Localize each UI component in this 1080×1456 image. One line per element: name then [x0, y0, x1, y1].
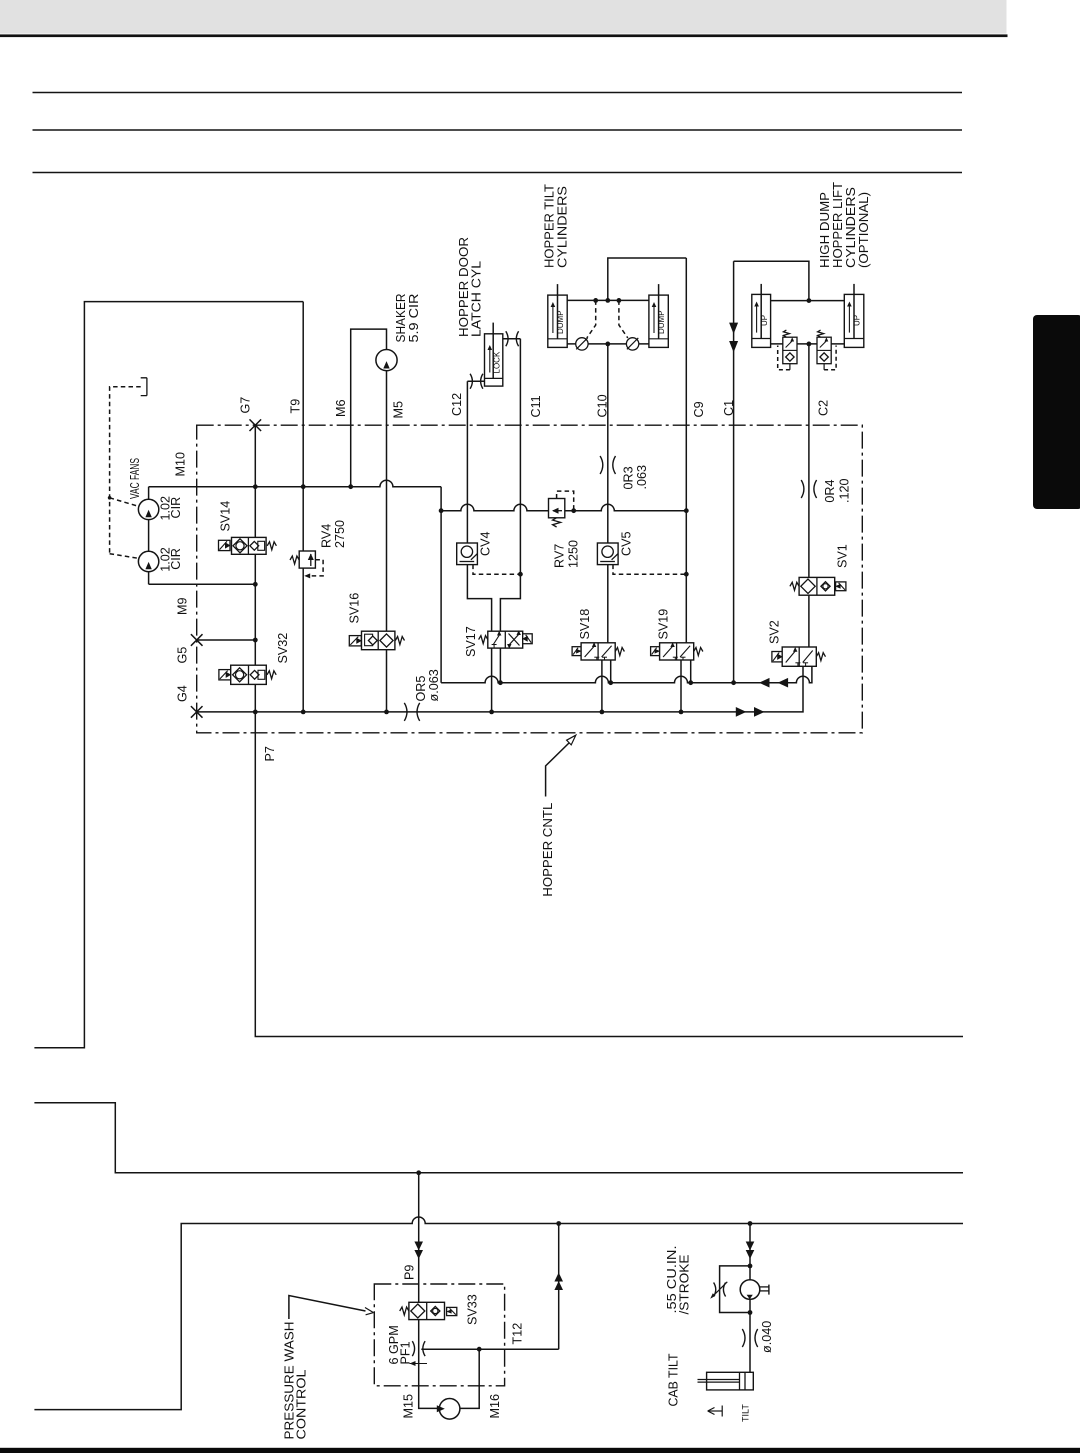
wire tilt cylinders rod-end line	[567, 299, 649, 301]
solenoid valve SV18	[572, 647, 581, 656]
svg-text:CIR: CIR	[169, 548, 183, 570]
wire vac-fan motor column	[148, 487, 150, 585]
svg-text:ø.040: ø.040	[760, 1321, 774, 1353]
wire T9 column	[302, 302, 304, 712]
svg-text:M6: M6	[334, 400, 348, 418]
wire P9 through box to M15	[419, 1284, 440, 1408]
high dump cylinder left	[752, 294, 771, 347]
svg-text:LOCK: LOCK	[493, 351, 502, 373]
hopper tilt cylinder right	[649, 295, 668, 347]
svg-text:M15: M15	[402, 1394, 416, 1419]
bottom black rule	[0, 1448, 1080, 1453]
orifice OR5	[404, 703, 407, 721]
svg-text:ø.063: ø.063	[427, 669, 441, 701]
counterbalance valve left	[783, 337, 797, 364]
page header grey bar	[0, 0, 1007, 34]
svg-text:SV2: SV2	[768, 620, 782, 644]
solenoid valve SV19	[651, 647, 660, 656]
wire SV17 stubs	[491, 648, 493, 712]
solenoid valve SV16	[349, 636, 361, 646]
wire G7/P7 column	[255, 425, 963, 1036]
junction dot M9	[253, 582, 258, 587]
svg-text:C12: C12	[450, 393, 464, 416]
wire C10 up leg to C9	[608, 258, 687, 300]
svg-text:(OPTIONAL): (OPTIONAL)	[856, 192, 871, 268]
flow arrows T rail left	[759, 678, 770, 688]
wire M10 down leg to return rail	[440, 487, 442, 683]
solenoid valve SV17	[479, 636, 488, 644]
wire outer frame left (VAC FANS supply)	[34, 302, 303, 1048]
wire pressure P rail	[197, 666, 803, 712]
wire supply line lower	[34, 1217, 963, 1410]
wire return line upper	[34, 1103, 963, 1173]
pilot dashed lines tilt	[587, 300, 596, 338]
wire cab tilt drop	[749, 1224, 751, 1373]
port X mark G7	[250, 419, 262, 431]
tilt direction arrow	[708, 1410, 723, 1412]
vac fan motor 1	[138, 499, 158, 519]
cab tilt pump	[740, 1280, 760, 1300]
right edge black tab	[1033, 315, 1080, 509]
svg-text:SV14: SV14	[219, 501, 233, 532]
case drain dashed line	[110, 387, 141, 554]
svg-text:UP: UP	[760, 315, 769, 326]
orifice cab tilt	[742, 1329, 745, 1347]
svg-text:LATCH CYL: LATCH CYL	[469, 261, 484, 337]
junction dots tilt	[593, 298, 598, 303]
wire G5 line	[197, 639, 256, 641]
wash pump motor	[439, 1399, 460, 1420]
svg-text:CV5: CV5	[620, 532, 634, 557]
shaker motor	[376, 350, 397, 371]
wire high dump rod-end line	[771, 300, 845, 302]
wire M9 rail	[149, 583, 256, 585]
header line 3	[33, 172, 963, 174]
svg-text:HOPPER CNTL: HOPPER CNTL	[540, 803, 555, 897]
svg-text:0R3: 0R3	[622, 466, 636, 489]
svg-text:UP: UP	[853, 315, 862, 326]
wire C1 column	[733, 261, 735, 682]
flow control PF1	[412, 1341, 414, 1356]
high dump cylinder right	[844, 294, 864, 347]
pressure wash dash-dot box	[374, 1284, 504, 1386]
wire C12 column	[467, 381, 491, 631]
svg-text:CAB TILT: CAB TILT	[666, 1353, 681, 1406]
svg-text:SV19: SV19	[657, 609, 671, 640]
svg-text:P9: P9	[403, 1265, 417, 1280]
junction dots M10 rail	[253, 484, 258, 489]
port X mark G5	[191, 634, 203, 646]
svg-text:/STROKE: /STROKE	[677, 1254, 692, 1314]
wire C1 top link	[734, 261, 809, 300]
svg-text:1250: 1250	[567, 540, 581, 568]
svg-text:M9: M9	[176, 598, 190, 616]
check valve CV4	[457, 543, 478, 565]
check valve CV5	[597, 543, 618, 565]
cab tilt pump shaft	[760, 1286, 769, 1288]
wire P9 drop	[418, 1173, 420, 1284]
wire latch cylinder top port C11	[503, 338, 521, 340]
svg-text:TILT: TILT	[741, 1404, 751, 1422]
orifice OR4	[801, 480, 804, 498]
wire C10 column	[607, 344, 609, 643]
case drain reservoir symbol	[141, 378, 147, 396]
svg-text:SV33: SV33	[466, 1294, 480, 1325]
wire M10 rail	[149, 480, 442, 486]
flow arrows C1 down	[729, 323, 738, 334]
svg-text:G4: G4	[176, 685, 190, 702]
svg-text:SV1: SV1	[836, 544, 850, 568]
svg-text:C9: C9	[692, 401, 706, 417]
relief valve RV7	[549, 499, 565, 518]
svg-text:SV32: SV32	[276, 633, 290, 664]
svg-text:CYLINDERS: CYLINDERS	[555, 186, 570, 268]
solenoid valve SV32	[219, 670, 231, 680]
svg-text:RV4: RV4	[320, 524, 334, 548]
wire T12 line	[421, 1224, 558, 1350]
flow control bypass loop	[720, 1266, 750, 1313]
svg-text:CIR: CIR	[169, 497, 183, 519]
flow arrows P rail right	[736, 707, 747, 717]
pilot check right	[626, 338, 638, 350]
pilot dashed CV4 to C11	[473, 565, 520, 575]
wire SV19 stubs	[680, 660, 682, 712]
svg-text:M16: M16	[488, 1394, 502, 1419]
hopper tilt cylinder left	[548, 295, 567, 347]
svg-text:C1: C1	[722, 400, 736, 416]
svg-text:.120: .120	[838, 478, 852, 503]
relief valve RV4	[299, 551, 315, 568]
svg-text:M5: M5	[392, 401, 406, 419]
manifold dash-dot boundary HOPPER CNTL	[197, 425, 863, 733]
svg-text:G7: G7	[239, 397, 253, 414]
svg-text:VAC FANS: VAC FANS	[127, 458, 142, 499]
header line 1	[33, 92, 963, 94]
junction dots T rail	[498, 680, 503, 685]
leader PRESSURE WASH CONTROL	[289, 1296, 366, 1320]
svg-text:P7: P7	[263, 746, 277, 761]
svg-text:CONTROL: CONTROL	[294, 1370, 309, 1440]
solenoid valve SV14	[219, 540, 231, 550]
wire return T rail	[441, 666, 812, 682]
junction dot G5	[253, 638, 258, 643]
svg-text:C11: C11	[529, 395, 543, 417]
leader HOPPER CNTL	[546, 743, 570, 797]
svg-text:DUMP: DUMP	[657, 310, 666, 334]
wire C2 column	[808, 344, 810, 647]
wire M5 line from shaker	[386, 371, 388, 712]
cab tilt cylinder	[707, 1372, 754, 1390]
vac fan motor 2	[138, 551, 158, 571]
svg-text:2750: 2750	[333, 520, 347, 548]
port X mark G4	[191, 706, 203, 718]
wire SV18 stubs	[601, 660, 603, 712]
wire C11 column	[500, 339, 520, 631]
wire tilt cylinders base line	[567, 343, 649, 345]
svg-text:T12: T12	[511, 1323, 525, 1345]
solenoid valve SV1	[790, 582, 799, 590]
svg-text:SV18: SV18	[578, 609, 592, 640]
svg-text:G5: G5	[176, 647, 190, 664]
header black rule	[0, 34, 1008, 37]
solenoid valve SV33	[400, 1307, 409, 1315]
svg-text:0R4: 0R4	[823, 479, 837, 502]
svg-text:SV17: SV17	[464, 626, 478, 657]
junction dots P rail	[253, 710, 258, 715]
orifice OR3	[600, 456, 603, 474]
header line 2	[33, 129, 963, 131]
svg-text:PF1: PF1	[399, 1341, 413, 1364]
junction dots mid rail	[439, 508, 444, 513]
solenoid valve SV2	[772, 652, 782, 662]
wire latch cylinder bottom port C12	[467, 380, 484, 382]
svg-text:OR5: OR5	[414, 676, 428, 702]
wire C9 column	[685, 258, 687, 643]
svg-text:M10: M10	[174, 452, 188, 477]
counterbalance valve right	[817, 337, 831, 364]
svg-text:C10: C10	[595, 394, 609, 417]
svg-text:5.9 CIR: 5.9 CIR	[406, 294, 421, 343]
svg-text:T9: T9	[289, 399, 303, 414]
svg-text:CV4: CV4	[479, 532, 493, 557]
pilot check left	[576, 338, 588, 350]
svg-text:SV16: SV16	[348, 593, 362, 624]
wire M16 line	[460, 1349, 479, 1408]
svg-text:.063: .063	[635, 465, 649, 490]
wire M6 line to shaker	[351, 329, 387, 487]
wire high dump base line	[771, 343, 845, 345]
svg-text:C2: C2	[817, 400, 831, 416]
hopper door latch cylinder	[485, 334, 503, 386]
wire mid rail to RV7/C9	[441, 504, 686, 510]
svg-text:RV7: RV7	[553, 544, 567, 568]
pilot dashed CV5 to C9	[613, 565, 686, 575]
svg-text:DUMP: DUMP	[556, 310, 565, 334]
